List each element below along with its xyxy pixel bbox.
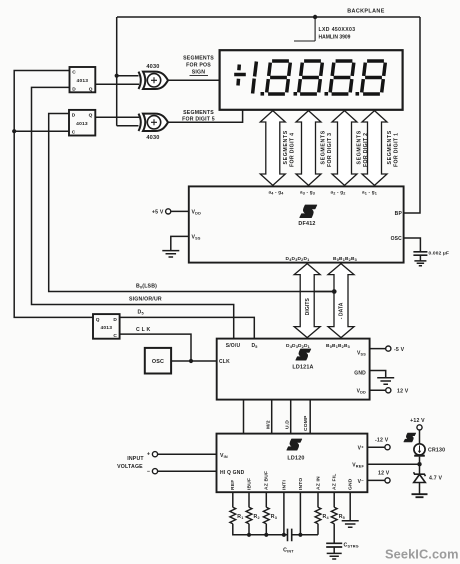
node -5V terminal [370, 346, 405, 353]
display digit 8 (first) [267, 61, 291, 94]
transistor gate XOR 4030 (pos sign) [143, 72, 168, 89]
bus arrow segments for digit 4 [260, 111, 285, 186]
svg-text:SEGMENTS: SEGMENTS [387, 130, 393, 164]
display digit 8 (second) [299, 61, 323, 94]
svg-text:+5 V: +5 V [152, 209, 164, 215]
bus arrow segments for digit 1 [362, 111, 387, 186]
svg-text:VOLTAGE: VOLTAGE [117, 464, 143, 470]
svg-text:12 V: 12 V [378, 471, 390, 477]
svg-text:0.002 µF: 0.002 µF [429, 251, 450, 257]
display decimal point 4 [356, 92, 360, 96]
svg-text:V⁻: V⁻ [358, 479, 365, 485]
display plus-minus sign segment [234, 65, 246, 86]
display LCD module [220, 50, 403, 110]
ground LD120 GND [342, 521, 359, 527]
node label SEGMENTS FOR DIGIT 2 [357, 130, 369, 167]
svg-text:SEGMENTS: SEGMENTS [283, 130, 289, 164]
svg-text:+: + [147, 452, 150, 458]
svg-text:COMP: COMP [303, 415, 309, 431]
svg-text:Q: Q [96, 317, 100, 323]
svg-text:HAMLIN 3909: HAMLIN 3909 [319, 35, 351, 41]
svg-text:HI Q GND: HI Q GND [220, 470, 245, 476]
svg-text:GND: GND [348, 478, 354, 490]
svg-text:-5 V: -5 V [394, 347, 405, 353]
node backplane label pointer [294, 15, 317, 41]
wire VSS to ground [171, 236, 189, 250]
wire LD120 GND pin to ground [349, 492, 351, 520]
wire LD120 pin to R4 [317, 492, 319, 507]
svg-text:−: − [147, 469, 150, 475]
diode CR130 current regulator [414, 444, 425, 456]
bus arrow DIGITS [294, 264, 320, 338]
svg-text:4030: 4030 [146, 135, 159, 141]
svg-text:REF: REF [230, 480, 236, 490]
oscillator OSC [145, 348, 171, 374]
display decimal point 1 [261, 92, 265, 96]
wire B0 net to FF2 D [49, 114, 337, 294]
svg-text:B0​B1​B2​B3​: B0​B1​B2​B3​ [333, 256, 357, 262]
svg-text:R5​: R5​ [339, 514, 345, 520]
svg-text:SEGMENTS: SEGMENTS [357, 130, 363, 164]
svg-text:Q: Q [89, 86, 93, 92]
node +12V terminal [417, 425, 422, 430]
wire B0 crossing DIGITS bus [300, 289, 337, 294]
wire backplane net [117, 17, 420, 213]
resistor R2 [246, 507, 252, 523]
svg-text:FOR DIGIT 1: FOR DIGIT 1 [393, 133, 399, 167]
svg-text:4013: 4013 [77, 78, 89, 84]
node label SEGMENTS FOR DIGIT 5 [182, 110, 215, 123]
flip-flop U4 4013 (third) [93, 314, 120, 339]
svg-text:FOR DIGIT 4: FOR DIGIT 4 [290, 133, 296, 167]
svg-text:4.7 V: 4.7 V [429, 476, 442, 482]
node label SEGMENTS FOR POS SIGN [183, 56, 214, 76]
node input + terminal [147, 452, 217, 458]
svg-text:DF412: DF412 [298, 221, 315, 227]
ground DF412 VSS [162, 251, 179, 257]
svg-text:D4​D3​D2​D1​: D4​D3​D2​D1​ [286, 256, 310, 262]
wire LD120 pin to R5 [333, 492, 335, 507]
node label SEGMENTS FOR DIGIT 1 [387, 130, 399, 167]
svg-text:SIGN/OR/UR: SIGN/OR/UR [129, 296, 162, 302]
wire M/2 [271, 400, 273, 434]
bus arrow segments for digit 2 [332, 111, 357, 186]
wire LD120 pin to R3 [265, 492, 267, 507]
node -12V terminal [367, 438, 390, 450]
display digit 8 (third) [330, 61, 354, 94]
wire SIGN net to FF1 D [32, 87, 234, 338]
node label SEGMENTS FOR DIGIT 3 [321, 130, 333, 167]
svg-text:D: D [72, 86, 76, 92]
node LD120 logo [287, 439, 302, 450]
flip-flop U3 4013 (second) [69, 110, 95, 136]
svg-text:LD120: LD120 [287, 456, 304, 462]
svg-text:M/2: M/2 [266, 420, 272, 429]
svg-text:GND: GND [354, 371, 366, 377]
wire OSC output to LD121A CLK [171, 360, 217, 362]
wire LD121A to LD120 pin 1 [243, 400, 245, 434]
wire XOR2 output to display bottom [168, 110, 243, 123]
wire XOR1 output to display [168, 79, 220, 81]
svg-text:Q: Q [89, 113, 93, 119]
svg-text:LD121A: LD121A [292, 365, 313, 371]
svg-text:C: C [72, 129, 76, 135]
node INPUT VOLTAGE labels [117, 456, 144, 470]
resistor R4 [315, 507, 321, 523]
resistor R1 [230, 507, 236, 523]
svg-text:4013: 4013 [100, 325, 112, 331]
transistor gate XOR 4030 (digit 5) [143, 114, 168, 131]
svg-text:CR130: CR130 [428, 448, 445, 454]
svg-text:SeekIC.com: SeekIC.com [385, 547, 459, 562]
display decimal point 2 [294, 92, 298, 96]
svg-text:IBUF: IBUF [246, 478, 252, 490]
svg-text:D: D [113, 317, 117, 323]
wire U.D [290, 400, 292, 434]
svg-text:FOR POS: FOR POS [186, 63, 211, 69]
svg-text:D4​D3​D2​D1​: D4​D3​D2​D1​ [286, 343, 310, 349]
svg-text:BACKPLANE: BACKPLANE [347, 9, 384, 15]
svg-text:- DATA: - DATA [339, 302, 345, 319]
svg-text:CLK: CLK [219, 359, 230, 365]
node label SEGMENTS FOR DIGIT 4 [283, 130, 295, 167]
node CR130 logo [404, 433, 416, 442]
svg-text:V⁺: V⁺ [358, 446, 365, 452]
wire CLK net FF3 C to OSC junction [120, 334, 193, 363]
capacitor CINT [288, 529, 292, 542]
svg-text:SEGMENTS: SEGMENTS [183, 110, 214, 116]
ground CSTRG [327, 553, 342, 559]
flip-flop U2 4013 (first) [70, 67, 96, 92]
op-amp U6 LD120 analog front end [217, 434, 368, 493]
svg-text:INTO: INTO [298, 478, 304, 490]
svg-text:AZ IN: AZ IN [315, 476, 321, 490]
svg-text:B0​B1​B2​B3​: B0​B1​B2​B3​ [326, 343, 350, 349]
wire LD121A GND to ground [370, 371, 386, 378]
svg-text:U.D: U.D [285, 420, 291, 429]
svg-text:INTI: INTI [281, 480, 287, 490]
zener diode 4.7 V [414, 464, 426, 494]
ground zener [412, 494, 428, 497]
wire VREF to zener junction [367, 463, 419, 465]
svg-text:B0​(LSB): B0​(LSB) [136, 284, 157, 290]
ground LD121A [377, 378, 394, 384]
svg-text:OSC: OSC [391, 236, 403, 242]
capacitor CSTRG [326, 543, 342, 547]
node LD121A logo [296, 349, 311, 360]
display decimal point 3 [325, 92, 329, 96]
resistor R3 [263, 507, 269, 523]
svg-text:FOR DIGIT 5: FOR DIGIT 5 [182, 117, 215, 123]
svg-text:BP: BP [395, 211, 403, 217]
op-amp U1 DF412 display driver [189, 186, 404, 262]
node +5V terminal [152, 209, 189, 216]
resistor R5 [331, 507, 337, 523]
node 12V terminal (LD120 V-) [367, 471, 390, 483]
bus arrow DATA [328, 264, 354, 338]
svg-text:4013: 4013 [76, 121, 88, 127]
wire OSC pin [404, 238, 421, 251]
op-amp U5 LD121A ADC logic [217, 339, 370, 400]
svg-text:SEGMENTS: SEGMENTS [183, 56, 214, 62]
wire FF1 Q output to XOR1 [95, 83, 139, 85]
node input - terminal [147, 469, 217, 475]
svg-text:C L K: C L K [136, 327, 151, 333]
wire D5 net FF3 D to LD121A [120, 317, 255, 338]
svg-text:S/O/U: S/O/U [226, 343, 241, 349]
display digit 8 (fourth) [362, 61, 386, 94]
svg-text:12 V: 12 V [397, 389, 409, 395]
wire AZ FIL to CSTRG [333, 524, 335, 543]
wire COMP [309, 400, 311, 434]
svg-text:LXD 450XX03: LXD 450XX03 [319, 27, 356, 33]
wire CR130 to zener junction [417, 457, 421, 467]
svg-text:R3​: R3​ [271, 514, 277, 520]
node 12V terminal (LD121A VDD) [370, 388, 409, 395]
svg-text:SEGMENTS: SEGMENTS [321, 130, 327, 164]
capacitor 0.002 uF [413, 252, 427, 261]
wire clock net from FF3 Q to FF1/FF2 C [12, 71, 93, 318]
node DF412 logo [300, 205, 317, 218]
wire LD120 pin to R2 [248, 492, 250, 507]
wire +12V to CR130 [419, 430, 421, 444]
wire backplane to XOR inputs [115, 74, 139, 126]
svg-text:C: C [72, 70, 76, 76]
svg-text:AZ BUF: AZ BUF [264, 471, 270, 490]
svg-text:OSC: OSC [152, 359, 164, 365]
wire analog bus bottom [233, 492, 318, 537]
wire FF2 Q output to XOR2 [95, 116, 139, 118]
svg-text:DIGITS: DIGITS [305, 297, 311, 315]
svg-text:-12 V: -12 V [375, 438, 389, 444]
svg-text:D: D [72, 113, 76, 119]
wire CSTRG to ground [333, 547, 335, 553]
svg-text:SIGN: SIGN [192, 70, 206, 76]
bus arrow segments for digit 3 [296, 111, 321, 186]
wire LD120 pin to R1 [232, 492, 234, 507]
svg-text:+12 V: +12 V [410, 418, 425, 424]
display digit 1 [253, 62, 257, 94]
svg-text:C: C [113, 333, 117, 339]
svg-text:R1​: R1​ [237, 514, 243, 520]
svg-text:FOR DIGIT 3: FOR DIGIT 3 [327, 133, 333, 167]
svg-text:INPUT: INPUT [127, 456, 144, 462]
svg-text:4030: 4030 [146, 64, 159, 70]
svg-text:AZ FIL: AZ FIL [332, 474, 338, 490]
ground OSC capacitor [414, 261, 426, 266]
